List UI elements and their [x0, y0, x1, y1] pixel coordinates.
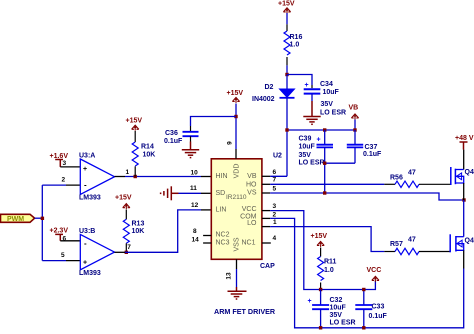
wire LO to R57 [262, 226, 270, 228]
svg-text:PWM: PWM [7, 216, 24, 223]
svg-text:IR2110: IR2110 [226, 194, 247, 201]
svg-text:R13: R13 [132, 221, 145, 228]
junction VS/Q3 source [462, 198, 465, 201]
svg-text:LM393: LM393 [79, 270, 101, 277]
junction C39 bottom [323, 162, 326, 165]
svg-text:+: + [317, 137, 321, 144]
svg-text:35V: 35V [299, 152, 312, 159]
transistor Q3 [451, 150, 474, 200]
svg-text:+15V: +15V [278, 1, 295, 8]
junction C39/rail [323, 128, 326, 131]
svg-text:C37: C37 [365, 144, 378, 151]
svg-text:14: 14 [192, 237, 200, 244]
power +15V (VDD) [227, 90, 244, 103]
svg-text:VB: VB [349, 105, 359, 112]
PWM port [1, 214, 35, 223]
svg-text:10uF: 10uF [330, 305, 347, 312]
junction C32/bottom rail [319, 326, 322, 329]
svg-text:3: 3 [273, 203, 277, 210]
svg-text:VCC: VCC [367, 267, 382, 274]
svg-text:C39: C39 [299, 136, 312, 143]
svg-text:IN4002: IN4002 [252, 96, 275, 103]
capacitor C32 [308, 290, 356, 328]
svg-text:11: 11 [190, 185, 197, 192]
resistor R56 [384, 170, 451, 188]
power +48V bar (Q3) [455, 135, 474, 150]
power +15V (R14) [126, 118, 143, 131]
svg-text:6: 6 [63, 236, 67, 243]
svg-text:10K: 10K [143, 152, 156, 159]
svg-text:0.1uF: 0.1uF [363, 151, 382, 158]
svg-text:LO: LO [247, 220, 257, 227]
svg-text:-: - [84, 181, 87, 190]
svg-text:C34: C34 [320, 81, 333, 88]
svg-text:3: 3 [63, 160, 67, 167]
svg-text:5: 5 [273, 186, 277, 193]
junction VS/C39 [323, 191, 326, 194]
power +2.3V bar [50, 228, 69, 241]
svg-text:U3:B: U3:B [79, 228, 95, 235]
svg-text:VB: VB [247, 173, 257, 180]
svg-text:10K: 10K [132, 228, 145, 235]
wire C39/C37 bottoms to VS [325, 162, 355, 164]
svg-text:NC1: NC1 [241, 240, 255, 247]
resistor R57 [384, 237, 450, 255]
wire PWM to comparator inputs [35, 185, 66, 261]
svg-text:HIN: HIN [216, 173, 228, 180]
power +15V (R11) [311, 233, 328, 247]
svg-text:9: 9 [227, 141, 234, 145]
svg-text:7: 7 [273, 177, 277, 184]
svg-text:47: 47 [408, 237, 416, 244]
svg-text:Q4: Q4 [465, 238, 474, 245]
resistor R16 [284, 13, 302, 75]
power +1.6V bar [50, 153, 69, 167]
svg-text:R57: R57 [390, 241, 403, 248]
svg-text:LIN: LIN [216, 207, 227, 214]
wire VDD to C36 [191, 117, 237, 127]
wire +2.3V to pin6 [60, 240, 80, 242]
svg-text:8: 8 [193, 228, 197, 235]
svg-text:1: 1 [273, 219, 277, 226]
svg-text:5: 5 [61, 252, 65, 259]
IC NC stubs [203, 236, 271, 244]
wire U3:A output to HIN [125, 176, 201, 178]
IC U2 IR2110 [211, 153, 282, 260]
junction R16/D2/C34 [285, 73, 288, 76]
svg-text:1: 1 [126, 169, 130, 176]
junction C33/bottom rail [362, 326, 365, 329]
svg-text:+2.3V: +2.3V [50, 228, 69, 235]
svg-text:VSS: VSS [234, 237, 241, 251]
svg-text:10uF: 10uF [323, 89, 340, 96]
wire COM pin2 down to bottom rail [262, 217, 270, 219]
capacitor C39 [299, 130, 334, 167]
svg-text:U2: U2 [273, 153, 282, 160]
svg-text:2: 2 [62, 177, 66, 184]
svg-text:LO ESR: LO ESR [330, 320, 356, 327]
svg-text:C33: C33 [372, 304, 385, 311]
junction VB/rail [353, 128, 356, 131]
svg-text:10uF: 10uF [299, 144, 316, 151]
svg-text:+: + [305, 82, 309, 89]
wire HO to R56 [262, 183, 270, 185]
capacitor C34 [304, 81, 346, 117]
capacitor C36 [164, 126, 199, 145]
ground (VSS) [228, 287, 247, 299]
wire junction to C34 [287, 75, 312, 86]
svg-text:R56: R56 [390, 175, 403, 182]
wire U3:B output to LIN [115, 251, 126, 253]
junction R11/VCC node [319, 288, 322, 291]
transistor Q4 [450, 200, 474, 269]
wire VS to half-bridge node [262, 192, 270, 194]
resistor R14 [132, 131, 155, 177]
svg-text:+15V: +15V [115, 195, 132, 202]
junction PWM branch [41, 217, 44, 220]
svg-text:+15V: +15V [126, 118, 143, 125]
resistor R13 [123, 210, 144, 253]
svg-text:6: 6 [273, 169, 277, 176]
svg-text:NC3: NC3 [216, 240, 230, 247]
junction R13 output [125, 251, 128, 254]
junction R14 output [134, 175, 137, 178]
wire SD to ground [179, 192, 202, 194]
wire VB rail [287, 120, 355, 177]
power +15V (R13) [115, 195, 132, 210]
svg-text:4: 4 [273, 235, 277, 242]
power port VB [349, 105, 359, 120]
ground (C34) [303, 101, 320, 124]
svg-text:+: + [83, 260, 87, 267]
svg-text:1.0: 1.0 [290, 42, 300, 49]
svg-text:LM393: LM393 [79, 195, 101, 202]
junction VDD/C36 [234, 115, 237, 118]
svg-text:+: + [308, 298, 312, 305]
svg-text:0.1uF: 0.1uF [164, 138, 183, 145]
svg-text:SD: SD [216, 190, 226, 197]
svg-text:10: 10 [191, 170, 199, 177]
svg-text:35V: 35V [330, 312, 343, 319]
svg-text:+48 V: +48 V [455, 135, 474, 142]
svg-text:R16: R16 [290, 34, 303, 41]
svg-text:VDD: VDD [234, 164, 241, 179]
svg-text:D2: D2 [265, 84, 274, 91]
svg-text:NC2: NC2 [216, 232, 230, 239]
svg-text:C32: C32 [330, 297, 343, 304]
resistor R11 [318, 248, 337, 290]
svg-text:CAP: CAP [260, 263, 275, 270]
svg-text:HO: HO [246, 182, 257, 189]
diode D2 [252, 75, 295, 131]
svg-text:0.1uF: 0.1uF [369, 313, 388, 320]
ground (C36) [182, 142, 199, 158]
svg-text:LO ESR: LO ESR [299, 160, 325, 167]
op-amp U3:B [79, 228, 115, 277]
svg-text:VS: VS [247, 190, 257, 197]
svg-text:35V: 35V [321, 101, 334, 108]
svg-text:R11: R11 [324, 259, 337, 266]
svg-text:1.0: 1.0 [324, 267, 334, 274]
wire VSS to ground [236, 259, 238, 269]
svg-text:13: 13 [226, 272, 233, 280]
svg-text:LO ESR: LO ESR [320, 110, 346, 117]
svg-text:+15V: +15V [311, 233, 328, 240]
svg-text:+15V: +15V [227, 90, 244, 97]
svg-text:ARM FET DRIVER: ARM FET DRIVER [214, 307, 276, 316]
svg-text:Q4: Q4 [465, 169, 474, 176]
power +15V (R16) [278, 1, 295, 14]
wire VB pin6 [270, 175, 287, 177]
svg-text:12: 12 [191, 202, 199, 209]
svg-text:VCC: VCC [242, 206, 257, 213]
capacitor C33 [355, 290, 387, 328]
junction C33/VCC node [362, 288, 365, 291]
power port VCC [367, 267, 382, 282]
svg-text:+: + [83, 166, 87, 173]
svg-text:-: - [84, 239, 87, 248]
svg-text:R14: R14 [141, 144, 154, 151]
ground (SD) [161, 186, 179, 200]
svg-text:U3:A: U3:A [79, 153, 95, 160]
wire +1.6V to pin3 [60, 166, 80, 168]
svg-text:7: 7 [127, 244, 131, 251]
junction D2/rail [285, 128, 288, 131]
op-amp U3:A [79, 153, 115, 202]
svg-text:47: 47 [408, 170, 416, 177]
wire VCC pin3 down to VCC node [262, 210, 270, 212]
capacitor C37 [347, 130, 382, 163]
svg-text:2: 2 [273, 212, 277, 219]
wire +15V to VDD pin9 [235, 104, 237, 150]
svg-text:C36: C36 [165, 130, 178, 137]
